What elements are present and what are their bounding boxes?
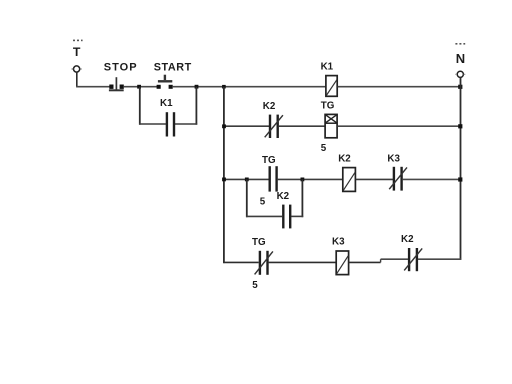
contact K2 (NC, rung4) — [404, 248, 422, 271]
junction rung1 at right bus — [458, 85, 462, 89]
wire rung4 right — [418, 258, 461, 260]
junction rung2 at left bus — [222, 124, 226, 128]
coil TG (timer) — [325, 114, 337, 137]
pushbutton START (NO) — [157, 75, 173, 89]
junction rung3 at left bus — [222, 178, 226, 182]
wire left bus — [223, 87, 225, 263]
wire rung2 right — [338, 125, 461, 127]
wire rung4 TG-coil — [269, 261, 337, 263]
contact K1 label — [160, 98, 173, 109]
svg-text:TG: TG — [252, 237, 266, 248]
contact K2 (NO, branch) — [283, 205, 290, 229]
wire K1 branch left vertical — [139, 87, 141, 125]
svg-text:T: T — [73, 45, 81, 59]
svg-text:5: 5 — [260, 197, 266, 208]
svg-text:K2: K2 — [277, 191, 290, 202]
svg-text:K1: K1 — [321, 62, 334, 73]
terminal T label — [73, 45, 81, 59]
coil K2 label — [338, 154, 351, 165]
junction rung2 at right bus — [458, 124, 462, 128]
wire K1 branch right vertical — [195, 87, 197, 125]
wire rung4 left — [223, 261, 259, 263]
wire TG branch bottom right — [291, 215, 303, 217]
contact K3 label (rung3) — [387, 153, 400, 164]
contact K2 (NC, rung2) — [265, 115, 283, 138]
junction rung1 at K1 branch right — [195, 85, 199, 89]
wire rung3 right — [403, 178, 461, 180]
junction rung3 at TG branch right — [301, 178, 305, 182]
value 5 (TG branch) — [260, 197, 266, 208]
contact K1 (NO) — [167, 112, 174, 136]
coil TG label — [321, 101, 335, 112]
wire rung4 jog-K2 — [381, 258, 409, 260]
wire rung1 start-coil — [173, 86, 326, 88]
contact TG (NO, rung3) — [270, 166, 277, 191]
wire rung2 left — [224, 125, 269, 127]
contact K3 (NC, rung3) — [389, 167, 407, 191]
wire rung4 jog vertical — [380, 259, 382, 262]
pushbutton START label — [154, 61, 192, 73]
value 5 (TG rung2) — [321, 143, 327, 154]
terminal N dots — [455, 43, 465, 45]
wire K1 branch bottom left — [139, 123, 166, 125]
value 5 (TG rung4) — [252, 280, 258, 291]
wire K1 branch bottom right — [175, 123, 197, 125]
wire rung3 left — [224, 178, 269, 180]
contact TG (NC, rung4) — [255, 251, 273, 275]
wire rung2 middle — [279, 125, 325, 127]
wire rung1 left — [76, 86, 113, 88]
terminal N label — [456, 51, 465, 66]
svg-text:K1: K1 — [160, 98, 173, 109]
contact K2 label (rung4) — [401, 234, 414, 245]
coil K3 — [336, 251, 348, 275]
svg-text:K2: K2 — [401, 234, 414, 245]
svg-text:STOP: STOP — [104, 61, 138, 73]
contact TG label (rung4) — [252, 237, 266, 248]
terminal T dots — [73, 40, 83, 42]
wire right bus — [460, 77, 462, 260]
svg-text:TG: TG — [321, 101, 335, 112]
junction rung3 at TG branch left — [245, 178, 249, 182]
svg-text:START: START — [154, 61, 192, 73]
coil K2 — [343, 168, 356, 192]
wire rung3 coil-K3 — [356, 178, 393, 180]
svg-text:N: N — [456, 51, 465, 66]
svg-text:K3: K3 — [332, 237, 345, 248]
svg-text:TG: TG — [262, 155, 276, 166]
junction rung3 at right bus — [458, 177, 462, 181]
coil K3 label — [332, 237, 345, 248]
junction rung1 at left bus — [222, 85, 226, 89]
junction rung1 at K1 branch left — [137, 85, 141, 89]
svg-text:5: 5 — [252, 280, 258, 291]
wire TG branch right vertical — [301, 179, 303, 217]
wire rung3 after TG — [278, 178, 343, 180]
contact K2 label (branch) — [277, 191, 290, 202]
terminal T — [72, 66, 82, 72]
wire rung4 coil-jog — [349, 261, 381, 263]
svg-text:5: 5 — [321, 143, 327, 154]
pushbutton STOP (NC) — [109, 77, 124, 91]
svg-text:K2: K2 — [338, 154, 351, 165]
svg-text:K2: K2 — [263, 101, 276, 112]
wire TG branch left vertical — [246, 179, 248, 217]
wire T lead down — [76, 72, 78, 87]
wire TG branch bottom left — [246, 215, 282, 217]
contact TG label (rung3) — [262, 155, 276, 166]
svg-text:K3: K3 — [387, 153, 400, 164]
coil K1 label — [321, 62, 334, 73]
terminal N — [455, 71, 465, 77]
coil K1 — [326, 76, 337, 97]
wire rung1 stop-start — [124, 86, 161, 88]
contact K2 label (rung2) — [263, 101, 276, 112]
pushbutton STOP label — [104, 61, 138, 73]
wire rung1 coil-N — [338, 86, 461, 88]
